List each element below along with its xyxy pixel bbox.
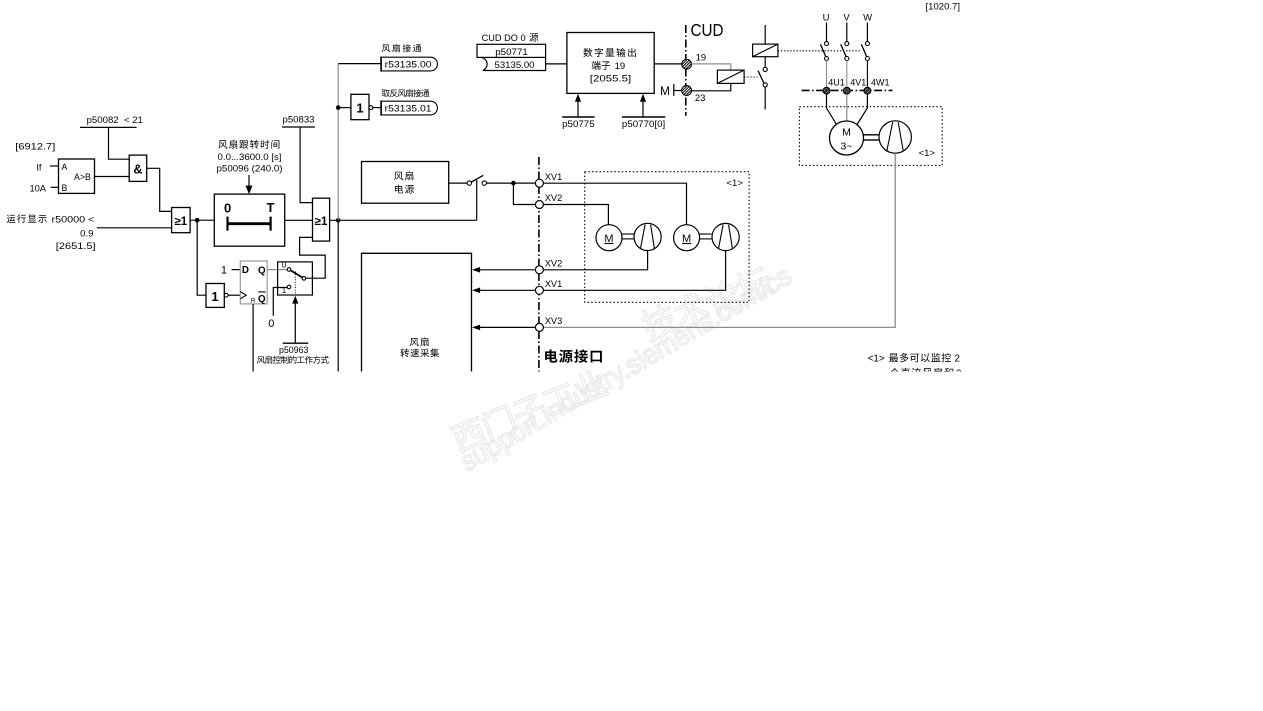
watermark text support.industry.siemens.com/cs bbox=[454, 260, 796, 477]
svg-text:&: & bbox=[133, 162, 142, 176]
terminal XV2 bbox=[535, 193, 562, 208]
svg-text:<1>: <1> bbox=[868, 353, 888, 364]
parameter p50963 bbox=[279, 296, 309, 356]
svg-text:4W1: 4W1 bbox=[871, 78, 890, 88]
binector input connector p50771 bbox=[477, 44, 546, 71]
footnote <1> bbox=[868, 353, 962, 380]
inverter 1 bbox=[351, 94, 373, 119]
constant 0 label bbox=[268, 318, 274, 330]
wire bbox=[472, 325, 535, 331]
timer 0-T block bbox=[214, 194, 284, 246]
arrow into timer bbox=[246, 186, 253, 195]
DC motor M1 bbox=[596, 225, 622, 251]
terminal 23 bbox=[682, 86, 706, 104]
svg-text:XV1: XV1 bbox=[545, 279, 563, 289]
wire bbox=[692, 64, 731, 70]
output connector r53135.00 bbox=[381, 57, 437, 72]
node junction bbox=[336, 105, 341, 110]
terminal XV2 bbox=[535, 258, 562, 273]
fan F1 bbox=[879, 121, 911, 153]
terminal XV3 bbox=[535, 316, 562, 331]
svg-text:19: 19 bbox=[696, 52, 707, 63]
svg-text:<1>: <1> bbox=[919, 148, 936, 159]
svg-text:r50000 <: r50000 < bbox=[52, 214, 95, 225]
wire bbox=[543, 205, 608, 225]
comparator A>B bbox=[59, 159, 95, 193]
mechanical link bbox=[778, 50, 862, 52]
svg-text:V: V bbox=[843, 13, 850, 24]
AC fan dashed box bbox=[799, 107, 942, 166]
svg-text:R: R bbox=[251, 297, 256, 304]
svg-text:r53135.00: r53135.00 bbox=[385, 60, 432, 70]
svg-text:p50082 < 21: p50082 < 21 bbox=[87, 115, 143, 126]
terminal 4W1 bbox=[864, 87, 871, 94]
and gate bbox=[129, 155, 147, 181]
terminal 4V1 label bbox=[850, 78, 866, 88]
svg-text:r53135.01: r53135.01 bbox=[385, 104, 432, 114]
wire bbox=[472, 267, 535, 273]
watermark text 西门子工业 bbox=[450, 367, 610, 454]
label 取反风扇接通 bbox=[382, 89, 430, 97]
wire bbox=[337, 220, 339, 371]
wire bbox=[373, 107, 381, 109]
wire bbox=[546, 63, 567, 65]
flip-flop D bbox=[240, 261, 267, 305]
wire bbox=[544, 153, 896, 327]
parameter p50833 label bbox=[282, 115, 315, 128]
terminal 19 bbox=[682, 52, 706, 69]
digital output block terminal 19 bbox=[567, 33, 654, 94]
svg-text:[1020.7]: [1020.7] bbox=[926, 1, 961, 11]
svg-text:A: A bbox=[62, 162, 68, 172]
svg-text:Q: Q bbox=[258, 294, 266, 305]
motor M 3~ bbox=[830, 121, 864, 155]
terminal 4V1 bbox=[843, 87, 850, 94]
sheet reference [1020.7] bbox=[926, 1, 961, 11]
fan F2 bbox=[634, 223, 661, 250]
wire bbox=[846, 61, 848, 88]
wire bbox=[330, 219, 477, 221]
svg-text:≥1: ≥1 bbox=[174, 216, 187, 228]
svg-text:1: 1 bbox=[356, 101, 363, 116]
wire bbox=[232, 269, 241, 271]
wire bbox=[866, 61, 868, 88]
svg-text:CUD DO 0: CUD DO 0 bbox=[482, 33, 526, 44]
svg-text:U: U bbox=[823, 13, 830, 24]
svg-text:<1>: <1> bbox=[727, 178, 744, 189]
fan power supply block bbox=[362, 162, 449, 204]
svg-text:Q: Q bbox=[258, 265, 266, 276]
wire bbox=[147, 168, 172, 211]
wire bbox=[190, 219, 214, 221]
wire bbox=[543, 183, 686, 225]
phase U label bbox=[823, 13, 830, 24]
fan speed acquisition block bbox=[362, 253, 472, 371]
wire bbox=[338, 107, 351, 109]
svg-text:23: 23 bbox=[695, 93, 706, 104]
svg-text:p50963: p50963 bbox=[279, 345, 309, 356]
DC fan dashed box bbox=[585, 172, 749, 303]
selector switch p50963 bbox=[278, 261, 313, 296]
wire bbox=[449, 182, 467, 184]
run indication label bbox=[7, 214, 96, 252]
wire bbox=[97, 227, 172, 229]
svg-text:[2651.5]: [2651.5] bbox=[56, 241, 96, 252]
svg-text:M: M bbox=[842, 126, 851, 138]
svg-text:[2055.5]: [2055.5] bbox=[590, 73, 632, 84]
label CUD bbox=[691, 20, 724, 40]
wire bbox=[300, 237, 326, 278]
svg-text:M: M bbox=[660, 84, 670, 98]
wire bbox=[337, 64, 339, 221]
parameter p50770[0] bbox=[622, 94, 665, 130]
parameter p50082 < 21 label bbox=[80, 115, 143, 127]
wire bbox=[846, 23, 848, 42]
contactor coil K1 bbox=[753, 44, 778, 57]
wire bbox=[476, 180, 478, 220]
wire bbox=[95, 176, 130, 178]
wire bbox=[51, 186, 59, 188]
terminal XV1 bbox=[535, 279, 562, 294]
fan supply dash-dot line bbox=[802, 89, 893, 91]
svg-text:p50833: p50833 bbox=[283, 115, 315, 126]
DC motor M2 bbox=[674, 225, 700, 251]
svg-text:XV3: XV3 bbox=[545, 316, 563, 326]
shaft bbox=[864, 135, 880, 140]
node junction bbox=[336, 218, 341, 223]
svg-text:0.0...3600.0 [s]: 0.0...3600.0 [s] bbox=[218, 152, 282, 163]
wire bbox=[846, 94, 848, 121]
wire bbox=[50, 165, 59, 167]
svg-text:If: If bbox=[36, 163, 42, 173]
constant 1 label bbox=[221, 264, 227, 276]
wire bbox=[764, 87, 766, 110]
wire bbox=[654, 63, 682, 65]
phase V label bbox=[843, 13, 850, 24]
svg-text:XV2: XV2 bbox=[545, 193, 563, 203]
svg-text:p50770[0]: p50770[0] bbox=[622, 119, 665, 130]
shaft bbox=[700, 234, 712, 239]
wire bbox=[543, 251, 725, 291]
terminal 4U1 label bbox=[828, 78, 845, 88]
wire bbox=[273, 288, 287, 316]
sheet reference [6912.7] bbox=[15, 142, 55, 152]
parameter p50775 bbox=[562, 94, 595, 130]
wire bbox=[764, 57, 766, 68]
wire bbox=[300, 127, 312, 203]
constant 10A label bbox=[29, 184, 46, 194]
svg-text:p50775: p50775 bbox=[562, 119, 595, 130]
node junction bbox=[511, 181, 516, 186]
inverter 2 bbox=[206, 284, 228, 308]
wire bbox=[513, 183, 535, 204]
svg-text:A>B: A>B bbox=[74, 172, 91, 182]
svg-text:1: 1 bbox=[221, 264, 227, 276]
svg-text:4U1: 4U1 bbox=[828, 78, 845, 88]
or gate 1 bbox=[172, 208, 191, 233]
wire bbox=[827, 94, 839, 127]
power interface dash-dot line bbox=[538, 157, 540, 372]
main contact K1.3 bbox=[861, 42, 869, 61]
svg-text:[6912.7]: [6912.7] bbox=[15, 142, 55, 152]
label CUD DO 0 源 bbox=[482, 33, 539, 44]
or gate 2 bbox=[313, 198, 330, 241]
fan F3 bbox=[712, 223, 739, 250]
output connector r53135.01 bbox=[381, 101, 437, 116]
wire bbox=[109, 127, 130, 159]
phase W label bbox=[863, 13, 872, 24]
wire bbox=[248, 175, 250, 186]
svg-text:1: 1 bbox=[211, 289, 218, 304]
wire bbox=[764, 25, 766, 44]
auxiliary contact K2 bbox=[758, 67, 767, 87]
svg-text:0: 0 bbox=[224, 201, 231, 216]
terminal 4U1 bbox=[823, 87, 830, 94]
label 风扇控制的工作方式 bbox=[257, 356, 329, 364]
wire bbox=[866, 23, 868, 42]
svg-text:p50096 (240.0): p50096 (240.0) bbox=[217, 164, 283, 175]
svg-text:≥1: ≥1 bbox=[315, 216, 328, 228]
wire bbox=[487, 182, 536, 184]
signal If label bbox=[36, 163, 42, 173]
node junction bbox=[195, 218, 200, 223]
power contact bbox=[467, 175, 486, 185]
wire bbox=[267, 269, 287, 271]
wire bbox=[543, 251, 647, 270]
shaft bbox=[622, 234, 634, 239]
svg-text:T: T bbox=[267, 200, 275, 215]
wire bbox=[252, 304, 254, 372]
watermark text 技术论坛 bbox=[638, 264, 775, 343]
wire bbox=[338, 63, 381, 65]
terminal 4W1 label bbox=[871, 78, 890, 88]
svg-text:2: 2 bbox=[955, 353, 960, 364]
main contact K1.2 bbox=[841, 42, 849, 61]
ground M rail bbox=[660, 84, 682, 98]
wire bbox=[197, 220, 206, 295]
svg-text:XV2: XV2 bbox=[545, 258, 563, 268]
mechanical link bbox=[744, 76, 757, 78]
svg-text:10A: 10A bbox=[29, 184, 46, 194]
relay coil K2 bbox=[717, 70, 744, 83]
svg-text:CUD: CUD bbox=[691, 20, 724, 40]
timer label p50096 bbox=[217, 140, 283, 175]
svg-text:D: D bbox=[242, 265, 249, 276]
svg-text:0.9: 0.9 bbox=[80, 229, 93, 240]
svg-text:0: 0 bbox=[268, 318, 274, 330]
terminal XV1 bbox=[535, 172, 562, 187]
svg-text:W: W bbox=[863, 13, 872, 24]
svg-text:19: 19 bbox=[612, 61, 625, 72]
CUD boundary dash-dot line bbox=[685, 25, 687, 116]
wire bbox=[228, 294, 240, 296]
wire bbox=[692, 83, 731, 90]
svg-text:B: B bbox=[62, 183, 68, 193]
label 电源接口 bbox=[545, 349, 602, 362]
svg-text:4V1: 4V1 bbox=[850, 78, 866, 88]
svg-text:XV1: XV1 bbox=[545, 172, 563, 182]
wire bbox=[285, 219, 313, 221]
svg-text:0: 0 bbox=[282, 261, 287, 270]
wire bbox=[856, 94, 868, 127]
wire bbox=[826, 61, 828, 88]
wire bbox=[826, 23, 828, 42]
svg-text:53135.00: 53135.00 bbox=[495, 60, 535, 71]
main contact K1.1 bbox=[820, 42, 828, 61]
svg-text:3~: 3~ bbox=[841, 141, 853, 153]
label 风扇接通 bbox=[382, 44, 421, 52]
wire bbox=[472, 288, 535, 294]
svg-text:p50771: p50771 bbox=[495, 47, 528, 58]
